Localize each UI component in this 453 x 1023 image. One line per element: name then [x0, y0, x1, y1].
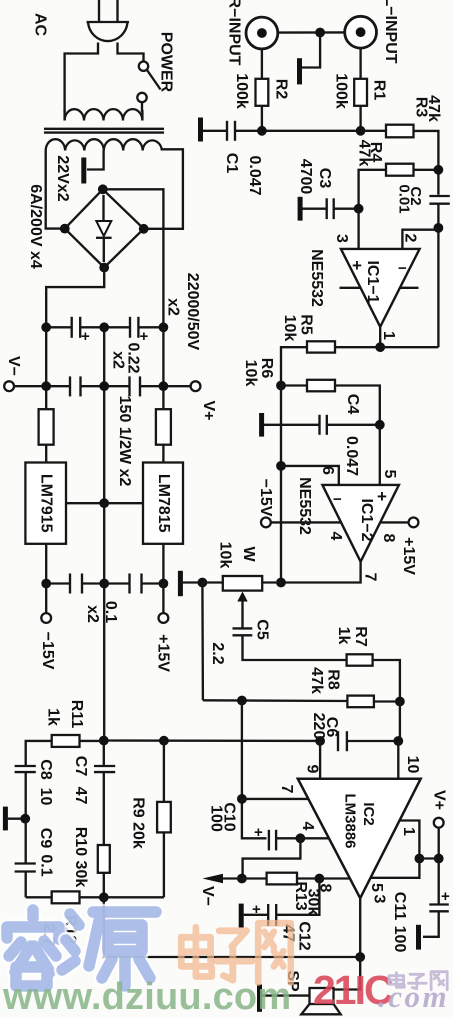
wire bus to R3 [361, 130, 386, 132]
node bridge right [139, 224, 149, 234]
svg-text:NE5532: NE5532 [296, 477, 313, 535]
capacitor C10 100 [254, 824, 300, 850]
chassis ground bar at center tap [81, 158, 86, 184]
svg-text:+15V: +15V [400, 537, 417, 575]
terminal V+ right [434, 818, 444, 828]
wire plug-right to switch [118, 43, 144, 62]
watermark glyph wang lavender [431, 972, 447, 990]
wire input bus [235, 130, 361, 132]
wire pin 1 [400, 821, 420, 859]
svg-text:C3: C3 [316, 168, 333, 189]
svg-text:6A/200V x4: 6A/200V x4 [27, 184, 44, 269]
svg-text:NE5532: NE5532 [308, 249, 325, 307]
capacitor C6 220 [338, 731, 400, 751]
resistor R5 10k [335, 346, 380, 348]
svg-text:7: 7 [361, 573, 378, 582]
terminal +15V right [409, 518, 419, 528]
ground bar speaker [257, 985, 262, 1012]
svg-text:10k: 10k [281, 315, 298, 342]
svg-text:R1: R1 [370, 80, 387, 101]
wire IC1-2 output pin 7 [281, 562, 361, 583]
wire ground row to pin 9 [104, 739, 320, 742]
svg-text:4: 4 [299, 822, 316, 831]
svg-text:R11: R11 [68, 700, 85, 729]
svg-text:47: 47 [72, 787, 89, 805]
switch S1 POWER [137, 61, 160, 112]
wire pin4 node down to R13 row [243, 838, 301, 878]
transformer T1 primary winding [65, 109, 143, 120]
wire between jacks [278, 31, 345, 34]
svg-text:100: 100 [391, 926, 408, 953]
svg-text:AC: AC [31, 13, 48, 37]
capacitor C11 100 with ground [416, 859, 450, 950]
node bridge top [98, 184, 108, 194]
node output IC1-2 pot right [276, 578, 286, 588]
svg-text:R6: R6 [258, 358, 275, 379]
capacitor row 0.22 x2 [14, 376, 191, 396]
capacitor row 0.1 x2 [46, 574, 163, 594]
wire R3 right to feedback rail [414, 131, 439, 195]
wire R4 right junction [414, 169, 439, 171]
svg-text:IC1−1: IC1−1 [364, 260, 381, 303]
ground bar near pot [178, 571, 183, 596]
node pin 6 row [276, 461, 286, 471]
svg-text:220: 220 [310, 713, 327, 740]
speaker ground stub [262, 994, 310, 996]
svg-text:LM7915: LM7915 [37, 474, 54, 533]
ground stub between jacks [302, 33, 320, 68]
resistor 150 1/2W left [39, 409, 54, 445]
wire pin 10 [397, 741, 399, 779]
op-amp U1b IC1-2 NE5532 [322, 485, 399, 562]
svg-text:150 1/2W x2: 150 1/2W x2 [116, 396, 133, 487]
svg-text:100k: 100k [332, 73, 349, 109]
svg-text:C8: C8 [37, 759, 54, 780]
capacitor C7 47 [94, 741, 115, 845]
svg-text:R9 20k: R9 20k [129, 797, 146, 849]
node R13 left V- [237, 874, 247, 884]
wire pin 9 [319, 741, 321, 779]
svg-text:47k: 47k [355, 140, 372, 167]
watermark glyph dian lavender [389, 973, 404, 988]
resistor R2 100k [261, 49, 263, 79]
node R8 left [237, 696, 247, 706]
svg-text:22Vx2: 22Vx2 [54, 155, 71, 201]
svg-text:100: 100 [207, 805, 224, 832]
node between jacks [315, 28, 325, 38]
node R13 right pin 8 [315, 874, 325, 884]
terminal +15V [162, 584, 164, 614]
node output LM3886 [355, 952, 365, 962]
svg-text:C4: C4 [344, 394, 361, 415]
node pot left [198, 578, 208, 588]
power stub pin 8 wire [380, 521, 408, 523]
svg-text:2: 2 [401, 234, 418, 243]
watermark glyph wang orange [258, 923, 291, 982]
node R9 top [159, 736, 169, 746]
wire secondary-left to bridge left node [46, 151, 62, 229]
watermark glyph rong [7, 910, 59, 986]
svg-text:2.2: 2.2 [209, 642, 226, 664]
svg-text:9: 9 [303, 765, 320, 774]
svg-text:−: − [333, 491, 342, 508]
node pin 9 [315, 736, 325, 746]
node IC1-1 pin 2 feedback [434, 223, 444, 233]
jack J1 R-INPUT [246, 17, 278, 49]
svg-text:−15V: −15V [39, 632, 56, 670]
svg-text:R−INPUT: R−INPUT [225, 0, 242, 66]
svg-text:LM3886: LM3886 [342, 793, 359, 848]
svg-text:IC2: IC2 [360, 802, 377, 825]
wire pin 2 [437, 228, 439, 230]
svg-text:0.047: 0.047 [246, 155, 263, 195]
svg-text:4: 4 [327, 532, 344, 541]
watermark glyph zi lavender [409, 974, 427, 989]
wire rail R5R6 down [280, 386, 282, 583]
node pin1 junction [415, 854, 425, 864]
resistor R11 1k [52, 735, 80, 747]
svg-text:+: + [377, 487, 387, 506]
svg-text:5: 5 [381, 470, 398, 479]
node R11 C7 [99, 736, 109, 746]
resistor R7 1k [347, 654, 373, 665]
wire node to IC1-1 pin 3 [357, 209, 359, 249]
svg-text:1: 1 [380, 331, 397, 340]
ground bar near jacks [297, 58, 302, 84]
svg-text:LM7815: LM7815 [155, 474, 172, 533]
jack J2 L-INPUT [345, 16, 377, 48]
V- arrow [202, 874, 242, 883]
op-amp U1a IC1-1 NE5532 [341, 249, 420, 327]
svg-text:R5: R5 [297, 314, 314, 335]
resistor R4 47k [386, 164, 414, 176]
svg-text:V+: V+ [200, 400, 217, 420]
node bridge bottom [99, 263, 109, 273]
power stub left IC1-1 [340, 287, 361, 289]
svg-text:+: + [252, 901, 261, 918]
svg-text:100k: 100k [233, 73, 250, 109]
svg-text:5: 5 [368, 883, 385, 892]
svg-text:V+: V+ [430, 790, 447, 810]
svg-text:+: + [441, 888, 450, 905]
svg-text:+: + [352, 256, 362, 275]
svg-text:R8: R8 [324, 669, 341, 690]
svg-text:www.dziuu.com: www.dziuu.com [2, 976, 291, 1018]
resistor 150 1/2W right [156, 409, 171, 445]
wire R8 row left [203, 699, 348, 702]
wire mid ground rail lower [103, 503, 105, 740]
terminal -15V [45, 584, 47, 614]
capacitor C12 47 with ground [239, 879, 320, 928]
ground bar C8 C9 [3, 807, 8, 831]
power stub right IC1-1 [400, 287, 419, 289]
wire LM7815 out [162, 544, 164, 584]
node R5 R6 left [276, 381, 286, 391]
svg-text:47k: 47k [308, 667, 325, 694]
wire R11 left down [26, 741, 52, 766]
capacitor C5 2.2 [233, 628, 347, 660]
wire R9 bottom to node [104, 896, 164, 898]
wire feedback rail to output [437, 230, 439, 348]
terminal V- [4, 381, 14, 391]
capacitor bank 22000/50V x2 row [46, 317, 163, 345]
svg-text:0.047: 0.047 [343, 436, 360, 476]
wire IC2 output pin 3 [359, 898, 361, 957]
potentiometer W 10k [202, 576, 281, 628]
watermark glyph dian orange [181, 927, 212, 976]
svg-text:3: 3 [370, 895, 387, 904]
wire rail x242 down [241, 701, 243, 799]
resistor R6 10k [281, 384, 307, 386]
wire R4 left to C3 node [359, 170, 386, 209]
svg-text:x2: x2 [164, 298, 181, 316]
watermark glyph yuan [62, 912, 156, 986]
wire plug-left to transformer [65, 43, 98, 113]
wire output return rail [104, 897, 360, 957]
AC plug P1 [87, 0, 130, 41]
svg-text:0.1: 0.1 [102, 601, 119, 623]
capacitor C3 4700 with ground [298, 197, 354, 221]
wire V- rail upper [45, 327, 47, 409]
svg-text:W: W [240, 546, 257, 562]
svg-text:0.1: 0.1 [37, 854, 54, 876]
node C8 C9 ground [20, 814, 30, 824]
svg-text:10k: 10k [216, 542, 233, 569]
resistor R9 20k [163, 741, 165, 802]
node pin 7 row [237, 794, 247, 804]
wire secondary center tap [87, 151, 104, 170]
wire V+ to node [438, 828, 440, 859]
wire LM7915 out [45, 544, 47, 584]
svg-text:−: − [398, 260, 407, 277]
wire output to feedback corner [380, 346, 438, 348]
transformer core [44, 128, 164, 130]
watermark glyph zi orange [216, 931, 252, 980]
svg-text:+: + [254, 824, 263, 841]
svg-text:L−INPUT: L−INPUT [382, 0, 399, 64]
svg-text:47k: 47k [425, 95, 442, 122]
capacitor C4 0.047 with ground [259, 413, 380, 437]
svg-text:0.01: 0.01 [396, 184, 413, 213]
svg-text:C12: C12 [295, 921, 312, 950]
wire pin 6 [281, 466, 339, 485]
wire rail down to C10 [242, 799, 267, 838]
node C4 right [375, 420, 385, 430]
node R12 R10 bottom [99, 892, 109, 902]
svg-text:C9: C9 [37, 828, 54, 849]
svg-text:10k: 10k [242, 360, 259, 387]
wire bridge bottom to V- rail [46, 268, 104, 328]
svg-text:1k: 1k [44, 708, 61, 726]
wire pin 8 stub [319, 877, 350, 879]
svg-text:C5: C5 [253, 619, 270, 640]
svg-text:C11: C11 [391, 892, 408, 921]
svg-text:1: 1 [400, 827, 417, 836]
bridge rectifier D1 6A/200V x4 [65, 189, 144, 267]
wire R8 right down to C6 row [399, 702, 401, 742]
wire secondary-right to bridge right node [146, 149, 183, 229]
wire output to speaker [334, 957, 361, 990]
wire pin1 node to pin5 stub [371, 859, 420, 878]
svg-text:1k: 1k [335, 627, 352, 645]
svg-text:C1: C1 [223, 153, 240, 174]
svg-text:R2: R2 [272, 79, 289, 100]
diode inside bridge [96, 195, 112, 262]
svg-text:+: + [81, 328, 90, 345]
capacitor C1 0.047 with ground [198, 118, 235, 142]
node pin 10 [393, 736, 403, 746]
svg-text:−15V: −15V [257, 479, 274, 517]
svg-text:R7: R7 [352, 626, 369, 647]
svg-text:V−: V− [5, 356, 22, 376]
wire regulators ground junction [66, 502, 143, 504]
node V+ junction [434, 854, 444, 864]
terminal -15V right [261, 518, 271, 528]
node bridge left [60, 224, 70, 234]
node R8 right [395, 697, 405, 707]
op-amp IC2 LM3886 [298, 779, 421, 899]
svg-text:7: 7 [278, 785, 295, 794]
wire pin 7 stub [242, 798, 308, 800]
regulator U3 LM7915 [25, 463, 66, 544]
wire pin 4 stub [300, 837, 328, 839]
svg-text:3: 3 [333, 234, 350, 243]
svg-text:C7: C7 [72, 756, 89, 777]
svg-text:10: 10 [404, 756, 421, 774]
node C3 R4 pin3 [354, 204, 364, 214]
wire pot left rail down [201, 583, 204, 701]
node output IC1-1 [375, 342, 385, 352]
resistor R12 2.7 [26, 896, 52, 898]
svg-text:4700: 4700 [297, 159, 314, 195]
resistor R1 100k [359, 48, 361, 79]
wire bridge top to V+ rail [103, 189, 164, 327]
svg-text:R10 30k: R10 30k [72, 827, 89, 888]
wire mid ground rail upper [103, 327, 105, 503]
speaker SP [301, 988, 340, 1014]
svg-text:8: 8 [380, 534, 397, 543]
regulator U4 LM7815 [143, 463, 183, 544]
capacitor C2 0.01 [429, 196, 449, 228]
capacitor C9 0.1 [15, 819, 36, 898]
wire V+ rail upper [162, 327, 164, 409]
node pin 4 C10 [296, 833, 306, 843]
svg-text:V−: V− [199, 886, 216, 906]
resistor R8 47k [347, 696, 374, 708]
svg-text:10: 10 [37, 788, 54, 806]
capacitor C8 10 [15, 766, 36, 819]
svg-text:x2: x2 [109, 351, 126, 369]
svg-text:6: 6 [319, 466, 336, 475]
svg-text:POWER: POWER [157, 32, 174, 93]
resistor R3 47k [386, 125, 414, 138]
resistor R13 30k [242, 877, 267, 879]
terminal V+ [191, 381, 201, 391]
svg-text:x2: x2 [84, 605, 101, 623]
resistor R10 30k [98, 845, 110, 873]
svg-text:+15V: +15V [154, 634, 171, 672]
transformer T1 secondary winding 22Vx2 [46, 139, 162, 150]
wire IC1-1 output pin 1 [379, 327, 381, 347]
svg-text:IC1−2: IC1−2 [358, 498, 375, 541]
wire C4 node to pin 5 [379, 425, 381, 485]
svg-text:22000/50V: 22000/50V [184, 273, 201, 351]
power stub pin 4 wire [271, 521, 342, 523]
